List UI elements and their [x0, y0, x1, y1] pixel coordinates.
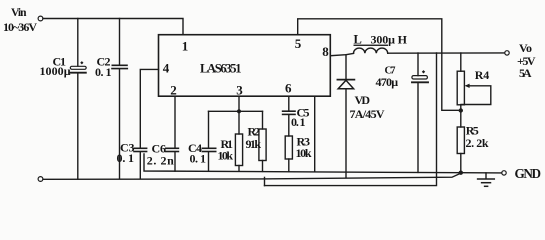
svg-text:2. 2n: 2. 2n	[147, 153, 174, 167]
wire top rail Vin to pin1	[43, 19, 183, 35]
svg-text:10k: 10k	[296, 146, 312, 160]
capacitor C1 top lead	[77, 19, 79, 67]
svg-text:1: 1	[182, 38, 189, 53]
diode VD bottom lead to ground rail	[345, 89, 347, 178]
svg-text:10~36V: 10~36V	[3, 20, 37, 34]
capacitor C3 plates	[134, 148, 147, 151]
wire pin 6 to C5	[288, 96, 290, 111]
node GND right terminal	[502, 171, 506, 175]
svg-text:5: 5	[295, 36, 302, 51]
diode VD cathode bar	[337, 79, 354, 81]
wire pin 3 node	[238, 96, 240, 111]
wire pin 4 to C3	[140, 69, 158, 148]
ground symbol	[478, 173, 495, 186]
wire pin 2 to C6	[174, 96, 176, 148]
wire output junction down to pin5 return line	[265, 53, 437, 186]
capacitor C7 top lead	[417, 53, 419, 76]
node pin3 junction dot	[237, 109, 241, 113]
wire stub ground rail to pin5 return line	[264, 177, 266, 185]
svg-text:0. 1: 0. 1	[95, 65, 112, 79]
wire ground rail to GND terminal	[461, 172, 502, 174]
svg-text:300μ H: 300μ H	[371, 32, 408, 46]
wire L1 compensation ground line	[144, 154, 461, 173]
svg-text:5A: 5A	[519, 66, 532, 80]
label L underline	[354, 45, 389, 46]
svg-text:VD: VD	[355, 93, 371, 107]
resistor R5 bottom lead	[460, 154, 462, 173]
capacitor C1 electrolytic plates	[70, 61, 86, 73]
capacitor C4 plates	[202, 148, 215, 151]
svg-text:2. 2k: 2. 2k	[466, 136, 489, 150]
node Vin input terminal	[38, 16, 43, 21]
capacitor C5 bottom lead	[288, 115, 290, 136]
capacitor C1 bottom lead	[77, 74, 79, 179]
capacitor C7 bottom lead	[417, 83, 419, 172]
svg-text:3: 3	[236, 83, 243, 98]
resistor R1 body	[235, 134, 242, 166]
diode VD triangle	[338, 80, 353, 88]
svg-text:10k: 10k	[218, 149, 234, 163]
resistor R2 bottom lead	[262, 161, 264, 172]
node ground junction dot	[459, 171, 463, 175]
resistor R1 top lead	[238, 111, 240, 134]
node feedback junction dot	[459, 108, 463, 112]
svg-text:1000μ: 1000μ	[40, 64, 71, 78]
resistor R4 top lead	[460, 53, 462, 71]
resistor R2 body	[259, 129, 266, 161]
resistor R4 bottom lead	[460, 105, 462, 111]
capacitor C6 plates	[166, 148, 179, 151]
svg-text:91k: 91k	[246, 137, 262, 151]
svg-text:R4: R4	[475, 68, 490, 82]
wire IC bottom pin 7 to L1 line	[314, 96, 316, 171]
capacitor C3 bottom lead to ground rail	[139, 152, 141, 179]
svg-text:2: 2	[170, 83, 177, 98]
inductor L coil	[354, 48, 388, 53]
capacitor C2 top lead	[119, 19, 121, 65]
capacitor C4 bottom lead to L1 line	[208, 152, 210, 171]
resistor R3 body	[285, 136, 292, 159]
capacitor C6 bottom lead to L1 line	[174, 152, 176, 171]
resistor R5 top lead	[460, 111, 462, 128]
capacitor C2 bottom lead	[119, 69, 121, 179]
node GND left terminal	[38, 177, 43, 182]
node Vo output terminal	[505, 51, 509, 55]
wire pin3 node horizontal C4 to R2	[209, 110, 263, 112]
resistor R1 bottom lead	[238, 166, 240, 172]
svg-text:GND: GND	[515, 166, 542, 181]
capacitor C4 top lead	[208, 111, 210, 148]
resistor R4 wiper arrow and loop	[461, 84, 491, 105]
resistor R4 potentiometer body	[457, 71, 464, 105]
svg-text:L: L	[354, 32, 362, 46]
resistor R3 bottom lead to L1 line	[288, 159, 290, 172]
wire pin 8 output line to Vo terminal	[330, 53, 353, 55]
capacitor C7 electrolytic plates	[412, 70, 428, 82]
wire pin 5 to top then right and down to feedback node	[298, 19, 459, 111]
op-amp U1 LAS6351 IC box	[159, 35, 331, 96]
svg-text:8: 8	[322, 44, 329, 59]
resistor R5 body	[457, 127, 464, 154]
svg-text:Vin: Vin	[11, 7, 27, 19]
resistor R2 top lead	[262, 111, 264, 129]
capacitor C2 plates	[112, 65, 127, 68]
svg-text:0. 1: 0. 1	[291, 115, 306, 129]
capacitor C5 plates	[283, 111, 295, 114]
svg-text:6: 6	[285, 80, 292, 95]
svg-text:470μ: 470μ	[376, 75, 399, 89]
svg-text:4: 4	[163, 61, 170, 76]
svg-text:7A/45V: 7A/45V	[350, 107, 385, 121]
wire inductor to Vo terminal	[388, 52, 505, 54]
diode VD top lead	[345, 55, 347, 79]
wire main ground rail	[43, 173, 461, 179]
svg-text:0. 1: 0. 1	[190, 152, 207, 166]
svg-text:0. 1: 0. 1	[117, 151, 135, 165]
svg-text:LAS6351: LAS6351	[200, 62, 242, 76]
